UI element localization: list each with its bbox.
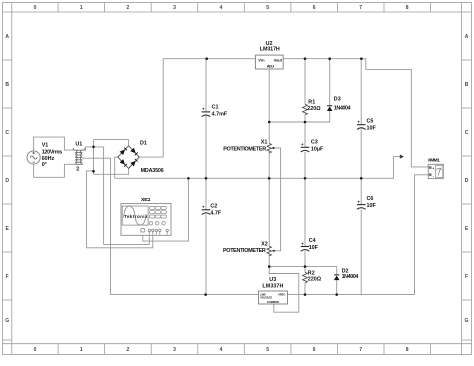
svg-text:G: G: [465, 318, 469, 324]
svg-text:POTENTIOMETER: POTENTIOMETER: [223, 146, 266, 152]
capacitor C1 4.7mF: [202, 104, 228, 118]
multimeter XMM1: [428, 158, 444, 179]
wire top rail left: bridge + output up to U2 Vin: [139, 59, 256, 157]
svg-text:Tektronix: Tektronix: [124, 214, 148, 219]
svg-text:5: 5: [266, 347, 269, 353]
svg-text:XMM1: XMM1: [428, 158, 440, 164]
svg-text:D: D: [5, 178, 9, 184]
svg-text:C6: C6: [367, 196, 374, 202]
junction: secondary top tap node: [92, 146, 95, 149]
svg-text:220Ω: 220Ω: [308, 277, 322, 283]
resistor R2 220ohm: [303, 271, 322, 283]
svg-text:2: 2: [127, 5, 130, 11]
svg-text:10µF: 10µF: [311, 146, 324, 152]
svg-text:C4: C4: [309, 238, 316, 244]
svg-text:8: 8: [406, 5, 409, 11]
wire scope probe B riser: [87, 171, 153, 248]
svg-text:MDA3506: MDA3506: [141, 168, 164, 174]
svg-text:1: 1: [80, 5, 83, 11]
svg-text:VOLTAGE: VOLTAGE: [260, 295, 272, 299]
wire U2 ADJ column through X1 and X2: [268, 69, 270, 143]
svg-text:VREG: VREG: [278, 292, 285, 296]
wire V1 top loop to transformer primary top: [34, 137, 75, 151]
oscilloscope XSC1: [121, 197, 171, 235]
svg-text:A: A: [5, 34, 9, 40]
potentiometer X1: [223, 139, 274, 153]
wire scope ground to center rail: [143, 178, 189, 241]
wire meter minus down to bottom rail: [415, 175, 429, 295]
svg-text:X1: X1: [261, 139, 268, 145]
svg-text:F: F: [6, 274, 9, 280]
svg-text:+: +: [301, 241, 304, 246]
svg-text:10F: 10F: [367, 125, 377, 131]
svg-text:4.7F: 4.7F: [210, 210, 221, 216]
svg-text:D: D: [465, 178, 469, 184]
junction: C5 top on +rail: [360, 57, 363, 60]
junction: R1 top on +rail: [304, 57, 307, 60]
wire D3 top: [329, 59, 331, 106]
svg-text:C2: C2: [210, 203, 217, 209]
wire bridge bottom vertex link: [94, 168, 129, 174]
wire C1/C2 column: [205, 59, 207, 112]
junction: C3/C4 on center rail: [304, 177, 307, 180]
output arrow connector: [393, 154, 404, 158]
svg-text:6: 6: [313, 347, 316, 353]
svg-text:+: +: [357, 120, 360, 125]
diode D3 1N4004: [327, 97, 351, 112]
wire center rail: [115, 157, 394, 179]
svg-text:B: B: [465, 82, 469, 88]
svg-text:XSC1: XSC1: [141, 197, 151, 203]
svg-text:+: +: [202, 205, 205, 210]
svg-text:R1: R1: [308, 100, 315, 106]
svg-text:0: 0: [34, 347, 37, 353]
svg-text:1N4004: 1N4004: [334, 105, 351, 111]
junction: secondary bottom tap node: [92, 170, 95, 173]
svg-text:U1: U1: [75, 142, 82, 148]
svg-text:10F: 10F: [367, 203, 377, 209]
svg-text:8: 8: [406, 347, 409, 353]
wire bottom rail: [111, 294, 415, 296]
junction: C1/C2 on center rail: [205, 177, 208, 180]
capacitor C2 4.7F: [202, 203, 222, 216]
junction: D3 top on +rail: [328, 57, 331, 60]
svg-text:5: 5: [266, 5, 269, 11]
svg-text:LM317H: LM317H: [260, 47, 280, 53]
svg-text:D3: D3: [334, 97, 341, 103]
bridge rectifier D1 MDA3506: [118, 140, 164, 174]
svg-text:C3: C3: [311, 139, 318, 145]
svg-text:1: 1: [80, 347, 83, 353]
svg-text:COMMON: COMMON: [267, 300, 279, 304]
svg-text:3: 3: [173, 5, 176, 11]
junction: X2 bottom / U3 ADJ node: [268, 265, 271, 268]
svg-text:4: 4: [220, 347, 223, 353]
junction: scope ground on center rail: [187, 177, 190, 180]
svg-text:0: 0: [34, 5, 37, 11]
potentiometer X2: [223, 242, 275, 256]
junction: C4 bottom / R2 top: [304, 265, 307, 268]
svg-text:Vout: Vout: [274, 58, 283, 63]
svg-text:Vin: Vin: [258, 58, 265, 63]
svg-text:V1: V1: [42, 143, 49, 149]
wire ADJ loop of U3: [269, 267, 299, 313]
svg-text:0°: 0°: [42, 162, 47, 168]
transformer U1: [73, 142, 85, 173]
wire bridge top vertex link: [94, 140, 129, 146]
junction: C5/C6 on center rail: [360, 177, 363, 180]
svg-text:7: 7: [359, 5, 362, 11]
resistor R1 220ohm: [303, 100, 322, 115]
wire top rail right: U2 Vout to step and down to meter: [283, 59, 429, 167]
svg-text:LM337H: LM337H: [262, 283, 283, 289]
svg-text:U3: U3: [269, 277, 276, 283]
wire C5 C6 column: [360, 59, 362, 125]
wire bridge left vertex drop: [115, 157, 119, 178]
junction: R2 bottom on -rail: [304, 293, 307, 296]
svg-text:1N4004: 1N4004: [342, 274, 359, 280]
regulator U2 LM317H: [255, 41, 283, 69]
svg-text:3: 3: [173, 347, 176, 353]
wire center tap to bottom rail: [83, 158, 111, 294]
regulator U3 LM337H: [259, 277, 288, 304]
svg-text:+: +: [202, 107, 205, 112]
junction: R1 bottom / C3 top: [304, 121, 307, 124]
svg-text:60Hz: 60Hz: [42, 156, 55, 162]
capacitor C5 10F: [357, 118, 376, 131]
wire R1 D3 adj link: [269, 111, 330, 122]
svg-text:+: +: [301, 142, 304, 147]
svg-text:POTENTIOMETER: POTENTIOMETER: [223, 248, 266, 254]
wire V1 bottom loop to transformer primary bottom: [34, 164, 75, 177]
svg-text:+: +: [357, 199, 360, 204]
V1 AC source: [27, 143, 62, 169]
frame column numbers bottom: [34, 347, 409, 353]
svg-text:4.7mF: 4.7mF: [212, 112, 228, 118]
svg-text:D1: D1: [140, 140, 147, 146]
frame column numbers top: [34, 5, 409, 11]
svg-text:F: F: [465, 274, 468, 280]
svg-text:2: 2: [127, 347, 130, 353]
junction: C2 bottom on -rail: [204, 293, 207, 296]
svg-text:7: 7: [359, 347, 362, 353]
wire secondary top tap to node column: [83, 147, 104, 150]
diode lower-right points to right vertex: [130, 161, 135, 167]
svg-text:C: C: [465, 130, 469, 136]
diode lower-left points to bottom vertex: [120, 159, 125, 165]
svg-text:2: 2: [76, 167, 79, 173]
svg-text:4: 4: [220, 5, 223, 11]
svg-text:220Ω: 220Ω: [307, 106, 321, 112]
svg-text:C1: C1: [212, 104, 219, 110]
wire D2 bottom: [336, 280, 338, 295]
wire X2 bottom node to C4 R2 D2: [269, 267, 337, 275]
wire R1 C3 C4 R2 column: [304, 59, 306, 105]
svg-text:A: A: [465, 34, 469, 40]
diode upper-left points to top vertex: [120, 150, 125, 156]
diode upper-right points to right vertex: [130, 148, 135, 154]
wire scope probe A riser: [104, 147, 150, 245]
diode D2 1N4004: [334, 268, 359, 280]
svg-text:C5: C5: [367, 118, 374, 124]
svg-text:ADJ: ADJ: [267, 63, 274, 68]
frame row letters right: [465, 34, 469, 324]
wire X1 X2 wiper link: [274, 148, 281, 251]
capacitor C6 10F: [357, 196, 376, 209]
svg-text:120Vrms: 120Vrms: [42, 149, 63, 155]
frame row letters left: [5, 34, 9, 324]
svg-text:+: +: [432, 166, 434, 170]
junction: C1 top on +rail: [205, 57, 208, 60]
wire node column vertical at x=93.5: [93, 140, 95, 175]
junction: X1 bottom / X2 top on center rail: [268, 177, 271, 180]
svg-text:6: 6: [313, 5, 316, 11]
junction: ADJ line at U2 column: [268, 121, 271, 124]
capacitor C3 10uF: [301, 139, 324, 152]
svg-text:10F: 10F: [309, 245, 319, 251]
junction: D2 bottom on -rail: [335, 293, 338, 296]
capacitor C4 10F: [301, 238, 319, 251]
svg-text:C: C: [5, 130, 9, 136]
svg-text:G: G: [5, 318, 9, 324]
svg-text:X2: X2: [261, 242, 268, 248]
svg-text:B: B: [5, 82, 9, 88]
